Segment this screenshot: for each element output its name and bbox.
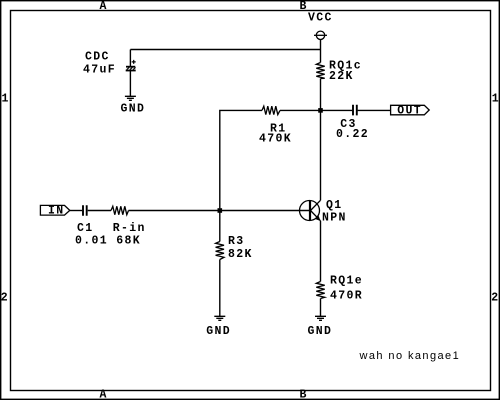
svg-text:OUT: OUT	[397, 104, 422, 117]
resistor R-in	[111, 206, 129, 214]
svg-text:VCC: VCC	[308, 12, 333, 25]
svg-text:GND: GND	[121, 103, 146, 116]
svg-text:wah no kangae1: wah no kangae1	[359, 350, 461, 362]
svg-text:R-in: R-in	[113, 222, 146, 235]
svg-text:C1: C1	[77, 222, 94, 235]
wire collector up	[320, 110, 322, 200]
wire collector node to C3	[321, 109, 353, 111]
svg-text:68K: 68K	[116, 234, 141, 247]
svg-text:B: B	[300, 0, 308, 13]
ground (CDC)	[125, 96, 136, 100]
wire R3 to ground	[219, 260, 221, 317]
power symbol VCC	[314, 31, 327, 39]
svg-text:0.22: 0.22	[336, 128, 369, 141]
wire RQ1c to collector node	[320, 79, 322, 111]
wire VCC to RQ1c	[320, 40, 322, 63]
capacitor CDC (polarized)	[126, 60, 136, 71]
capacitor C1	[83, 205, 87, 216]
wire CDC to ground	[129, 71, 131, 96]
ground (RQ1e)	[315, 316, 326, 320]
svg-text:1: 1	[492, 93, 500, 106]
wire C3 to OUT port	[358, 109, 391, 111]
svg-text:1: 1	[2, 93, 10, 106]
svg-text:B: B	[300, 389, 308, 400]
wire RQ1e to ground	[320, 299, 322, 317]
svg-text:CDC: CDC	[85, 51, 110, 64]
resistor R1	[262, 106, 280, 114]
junction collector node	[318, 108, 323, 113]
svg-text:RQ1e: RQ1e	[330, 274, 363, 287]
svg-text:0.01: 0.01	[75, 234, 108, 247]
wire CDC top	[129, 50, 131, 67]
svg-text:NPN: NPN	[322, 212, 347, 225]
wire R1 right to collector node	[280, 109, 321, 111]
svg-text:A: A	[100, 389, 108, 400]
wire R1 left + down to base node	[220, 110, 262, 208]
port IN	[40, 205, 69, 215]
svg-text:2: 2	[491, 292, 499, 305]
svg-text:GND: GND	[206, 325, 231, 338]
svg-text:22K: 22K	[329, 70, 354, 83]
wire IN to C1	[70, 210, 82, 212]
ground (R3)	[214, 316, 225, 320]
svg-text:47uF: 47uF	[83, 64, 116, 77]
svg-text:2: 2	[1, 292, 9, 305]
resistor R3	[216, 242, 224, 260]
wire R-in to base	[129, 210, 310, 212]
svg-text:470K: 470K	[259, 132, 292, 145]
resistor RQ1c	[316, 63, 324, 79]
wire emitter to RQ1e	[320, 221, 322, 282]
svg-text:82K: 82K	[228, 248, 253, 261]
wire VCC rail horizontal	[130, 49, 320, 51]
svg-text:Q1: Q1	[326, 199, 343, 212]
wire base node to R3	[219, 211, 221, 242]
svg-text:IN: IN	[48, 205, 65, 218]
capacitor C3	[353, 105, 357, 116]
svg-text:470R: 470R	[330, 289, 363, 302]
svg-text:GND: GND	[308, 325, 333, 338]
svg-text:R3: R3	[228, 235, 245, 248]
resistor RQ1e	[316, 282, 324, 299]
junction base node	[218, 208, 223, 213]
port OUT	[391, 105, 430, 115]
wire C1 to R-in	[88, 210, 111, 212]
svg-text:A: A	[100, 0, 108, 13]
transistor Q1	[300, 200, 321, 221]
